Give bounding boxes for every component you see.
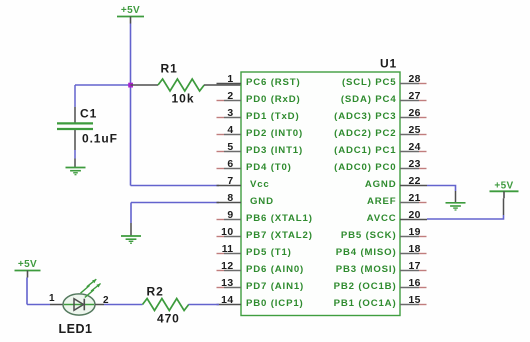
wire +5V vertical rail [130, 24, 132, 186]
svg-text:PB3 (MOSI): PB3 (MOSI) [336, 264, 397, 275]
svg-text:8: 8 [227, 193, 233, 204]
svg-text:AVCC: AVCC [367, 213, 397, 224]
pin 6 stub (PD4 (T0)) [217, 168, 225, 170]
svg-text:(ADC3) PC3: (ADC3) PC3 [334, 111, 396, 122]
svg-text:PD7 (AIN1): PD7 (AIN1) [246, 281, 304, 292]
ground (C1) [66, 168, 86, 175]
pin 27 stub ((SDA) PC4) [400, 100, 419, 102]
wire GND vertical drop [130, 203, 132, 224]
svg-text:16: 16 [409, 278, 421, 289]
svg-text:PB5 (SCK): PB5 (SCK) [341, 230, 397, 241]
pin 16 stub (PB2 (OC1B)) [400, 287, 419, 289]
svg-text:PD3 (INT1): PD3 (INT1) [246, 145, 303, 156]
pin 25 stub ((ADC2) PC2) [400, 134, 419, 136]
pin 3 stub (PD1 (TxD)) [217, 117, 225, 119]
svg-text:2: 2 [227, 91, 233, 102]
power +5V (top rail) [117, 5, 144, 24]
wire +5V rail to Vcc pin 7 [131, 185, 220, 187]
wire GND pin 8 horizontal [131, 202, 219, 204]
svg-text:10k: 10k [172, 92, 195, 106]
svg-text:7: 7 [227, 176, 233, 187]
svg-text:5: 5 [227, 142, 233, 153]
wire AGND pin 22 [427, 186, 456, 192]
svg-text:3: 3 [227, 108, 233, 119]
svg-text:PB6 (XTAL1): PB6 (XTAL1) [246, 213, 313, 224]
svg-text:10: 10 [221, 227, 233, 238]
svg-text:27: 27 [409, 91, 421, 102]
svg-text:15: 15 [409, 295, 421, 306]
svg-text:19: 19 [409, 227, 421, 238]
svg-text:AGND: AGND [365, 179, 397, 190]
svg-text:+5V: +5V [18, 259, 37, 270]
pin 12 stub (PD6 (AIN0)) [217, 270, 225, 272]
capacitor C1 [57, 85, 93, 168]
resistor R2 [143, 299, 220, 311]
svg-text:0.1uF: 0.1uF [82, 132, 118, 146]
pin 23 stub ((ADC0) PC0) [400, 168, 419, 170]
pin 11 stub (PD5 (T1)) [217, 253, 225, 255]
LED D1 (LED1) [50, 279, 104, 315]
svg-text:470: 470 [157, 312, 180, 326]
pin 26 stub ((ADC3) PC3) [400, 117, 419, 119]
svg-text:PB7 (XTAL2): PB7 (XTAL2) [246, 230, 313, 241]
node junction (+5V / R1 / C1) [128, 83, 133, 88]
IC U1 body [241, 72, 400, 316]
wire +5V to LED1 [26, 278, 28, 305]
power +5V (right, AVCC) [490, 180, 519, 198]
svg-text:(ADC0) PC0: (ADC0) PC0 [334, 162, 396, 173]
pin 10 stub (PB7 (XTAL2)) [217, 236, 225, 238]
svg-text:17: 17 [409, 261, 421, 272]
svg-text:AREF: AREF [367, 196, 397, 207]
resistor R1 [131, 79, 242, 91]
pin 9 stub (PB6 (XTAL1)) [217, 219, 225, 221]
wire LED1 to R2 [104, 304, 143, 306]
wire AVCC pin 20 to +5V [503, 198, 505, 215]
pin 18 stub (PB4 (MISO)) [400, 253, 419, 255]
svg-text:R1: R1 [161, 62, 178, 76]
svg-text:6: 6 [227, 159, 233, 170]
svg-text:PD5 (T1): PD5 (T1) [246, 247, 292, 258]
svg-text:+5V: +5V [121, 5, 140, 16]
pin 24 stub ((ADC1) PC1) [400, 151, 419, 153]
svg-text:(SCL) PC5: (SCL) PC5 [342, 77, 397, 88]
svg-text:21: 21 [409, 193, 421, 204]
pin 20 stub (AVCC) [400, 219, 427, 221]
pin 4 stub (PD2 (INT0)) [217, 134, 225, 136]
svg-text:LED1: LED1 [59, 322, 93, 336]
svg-text:R2: R2 [147, 285, 164, 299]
svg-text:14: 14 [221, 295, 233, 306]
LED light arrows [81, 279, 101, 297]
pin 14 stub (PB0 (ICP1)) [217, 304, 242, 306]
svg-text:PB0 (ICP1): PB0 (ICP1) [246, 298, 304, 309]
pin 7 stub (Vcc) [217, 185, 242, 187]
svg-text:PD2 (INT0): PD2 (INT0) [246, 128, 303, 139]
svg-text:PB1 (OC1A): PB1 (OC1A) [334, 298, 397, 309]
svg-text:18: 18 [409, 244, 421, 255]
svg-text:26: 26 [409, 108, 421, 119]
pin 2 stub (PD0 (RxD)) [217, 100, 225, 102]
svg-text:28: 28 [409, 74, 421, 85]
pin 1 stub (PC6 (RST)) [217, 83, 242, 85]
svg-text:PD6 (AIN0): PD6 (AIN0) [246, 264, 304, 275]
svg-text:23: 23 [409, 159, 421, 170]
pin 19 stub (PB5 (SCK)) [400, 236, 419, 238]
svg-text:12: 12 [221, 261, 233, 272]
svg-text:PD0 (RxD): PD0 (RxD) [246, 94, 301, 105]
svg-text:Vcc: Vcc [250, 179, 270, 190]
svg-text:(ADC2) PC2: (ADC2) PC2 [334, 128, 396, 139]
pin 28 stub ((SCL) PC5) [400, 83, 419, 85]
svg-text:PD4 (T0): PD4 (T0) [246, 162, 292, 173]
pin 15 stub (PB1 (OC1A)) [400, 304, 419, 306]
svg-text:+5V: +5V [494, 180, 513, 191]
pin 21 stub (AREF) [400, 202, 419, 204]
svg-text:PD1 (TxD): PD1 (TxD) [246, 111, 300, 122]
svg-text:22: 22 [409, 176, 421, 187]
svg-text:13: 13 [221, 278, 233, 289]
svg-text:PC6 (RST): PC6 (RST) [246, 77, 301, 88]
svg-text:GND: GND [250, 196, 274, 207]
svg-text:1: 1 [49, 293, 55, 304]
svg-text:(ADC1) PC1: (ADC1) PC1 [334, 145, 396, 156]
svg-text:C1: C1 [80, 107, 97, 121]
pin 5 stub (PD3 (INT1)) [217, 151, 225, 153]
svg-text:PB4 (MISO): PB4 (MISO) [336, 247, 397, 258]
wire junction to C1 [75, 84, 131, 86]
svg-text:20: 20 [409, 210, 421, 221]
svg-text:24: 24 [409, 142, 421, 153]
pin 13 stub (PD7 (AIN1)) [217, 287, 225, 289]
svg-text:U1: U1 [380, 57, 397, 71]
svg-text:4: 4 [227, 125, 233, 136]
svg-text:9: 9 [227, 210, 233, 221]
svg-text:11: 11 [222, 244, 234, 255]
pin 22 stub (AGND) [400, 185, 427, 187]
pin 8 stub (GND) [217, 202, 242, 204]
svg-text:1: 1 [227, 74, 233, 85]
svg-text:(SDA) PC4: (SDA) PC4 [341, 94, 397, 105]
svg-text:PB2 (OC1B): PB2 (OC1B) [334, 281, 397, 292]
power +5V (LED branch) [15, 259, 41, 277]
ground (AGND) [446, 203, 466, 210]
pin 17 stub (PB3 (MOSI)) [400, 270, 419, 272]
svg-text:25: 25 [409, 125, 421, 136]
ground (pin 8 GND) [121, 236, 141, 243]
